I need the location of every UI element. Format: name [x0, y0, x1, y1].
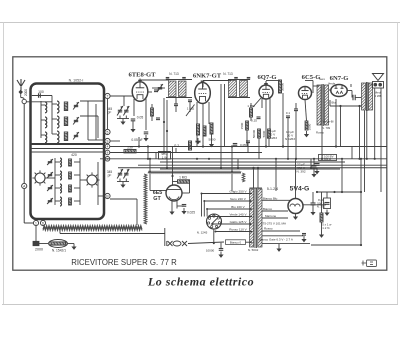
svg-text:7: 7 — [107, 94, 109, 98]
svg-text:1 W: 1 W — [162, 155, 168, 159]
svg-text:5000: 5000 — [209, 138, 216, 142]
svg-text:0.1: 0.1 — [286, 111, 291, 115]
svg-text:Verde-Bl: Verde-Bl — [323, 120, 334, 124]
svg-text:6NK7-GT: 6NK7-GT — [193, 73, 222, 80]
svg-text:Marrone: Marrone — [265, 214, 277, 218]
svg-text:6Q7-G: 6Q7-G — [257, 74, 276, 81]
svg-text:pF: pF — [108, 174, 112, 178]
svg-text:4: 4 — [107, 145, 109, 149]
svg-text:Lo schema elettrico: Lo schema elettrico — [147, 275, 254, 289]
svg-text:GT: GT — [153, 196, 161, 202]
svg-text:420: 420 — [71, 153, 77, 157]
svg-text:5: 5 — [107, 130, 109, 134]
svg-text:0.05 µF: 0.05 µF — [131, 138, 142, 142]
svg-text:9: 9 — [107, 139, 109, 143]
svg-text:8: 8 — [107, 151, 109, 155]
svg-text:RICEVITORE SUPER G. 77 R: RICEVITORE SUPER G. 77 R — [71, 258, 177, 267]
svg-text:0.025: 0.025 — [187, 211, 195, 215]
svg-text:1.2 %: 1.2 % — [322, 226, 330, 230]
svg-text:1500: 1500 — [240, 122, 244, 129]
svg-text:N. 713: N. 713 — [223, 72, 233, 76]
svg-text:Blu 160 V: Blu 160 V — [231, 205, 245, 209]
svg-text:6TE8-GT: 6TE8-GT — [128, 72, 156, 79]
svg-text:Nero 220 V: Nero 220 V — [230, 197, 247, 201]
svg-text:2000: 2000 — [24, 89, 28, 96]
svg-text:5V4-G: 5V4-G — [290, 186, 310, 193]
svg-text:N. 1052-I: N. 1052-I — [69, 79, 84, 83]
svg-text:0.05: 0.05 — [137, 116, 144, 120]
svg-text:Bianco Gate 6.3 V - 2.7 A: Bianco Gate 6.3 V - 2.7 A — [259, 237, 293, 241]
svg-text:Giallo 125 V: Giallo 125 V — [230, 220, 248, 224]
svg-text:N. 392: N. 392 — [296, 170, 305, 174]
svg-text:Nero: Nero — [319, 77, 326, 81]
svg-text:300 Ω: 300 Ω — [324, 157, 331, 161]
svg-text:Grigio 250 V: Grigio 250 V — [229, 189, 247, 193]
svg-text:Rosso: Rosso — [264, 227, 273, 231]
svg-text:N. 1542/1: N. 1542/1 — [52, 249, 66, 253]
svg-text:1: 1 — [35, 221, 37, 225]
svg-text:1 MΩ: 1 MΩ — [179, 175, 187, 179]
svg-text:Bianco: Bianco — [263, 207, 273, 211]
svg-text:Verde 140 V: Verde 140 V — [229, 212, 247, 216]
svg-text:10000: 10000 — [206, 249, 215, 253]
svg-text:50000: 50000 — [252, 129, 256, 138]
svg-text:6C5-G: 6C5-G — [302, 74, 321, 81]
svg-text:Rosso: Rosso — [316, 131, 324, 135]
svg-text:275-275 V 101 MA: 275-275 V 101 MA — [261, 222, 286, 226]
svg-text:5000: 5000 — [262, 130, 266, 137]
svg-text:N. 5042: N. 5042 — [248, 248, 259, 252]
svg-text:N.1263: N.1263 — [285, 137, 295, 141]
svg-text:G 2: G 2 — [174, 144, 179, 148]
svg-text:Bianco Blu: Bianco Blu — [263, 196, 278, 200]
svg-text:Bianco 0: Bianco 0 — [230, 240, 242, 244]
svg-text:N. 709: N. 709 — [322, 126, 331, 130]
svg-text:N.1263: N.1263 — [267, 136, 277, 140]
svg-text:Blu: Blu — [331, 101, 335, 105]
svg-text:Rosso 110 V: Rosso 110 V — [229, 227, 247, 231]
svg-text:N. 713: N. 713 — [169, 72, 179, 76]
svg-text:0.25: 0.25 — [251, 119, 257, 123]
svg-text:2000: 2000 — [35, 248, 43, 252]
svg-text:N. 1245: N. 1245 — [197, 230, 208, 234]
svg-text:5-1-2-4: 5-1-2-4 — [267, 187, 278, 191]
svg-text:250: 250 — [127, 145, 133, 149]
svg-text:pF: pF — [108, 111, 112, 115]
